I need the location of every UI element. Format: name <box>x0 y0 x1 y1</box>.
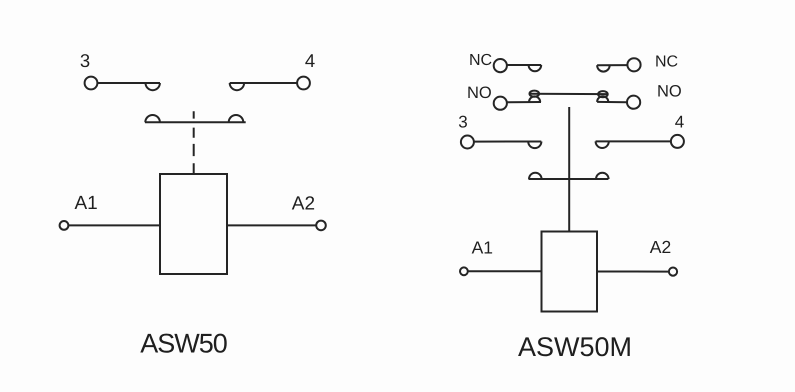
wire NO right <box>597 101 627 103</box>
wire coil to A2 <box>227 224 316 226</box>
NC fixed contact right (semicircle down) <box>597 65 610 71</box>
terminal circle 3 <box>85 77 98 90</box>
NO fixed contact left (semicircle up) <box>529 96 540 102</box>
svg-text:3: 3 <box>458 113 467 132</box>
terminal circle NO right <box>627 96 640 109</box>
svg-text:NC: NC <box>655 53 678 70</box>
svg-text:ASW50M: ASW50M <box>518 332 632 362</box>
svg-text:4: 4 <box>675 113 684 132</box>
wire pole3 (ASW50M) <box>474 141 541 143</box>
wire fixed contact to pole4 <box>230 82 298 84</box>
NO movable bridge wire <box>530 93 608 95</box>
coil K1 (ASW50) <box>160 174 227 274</box>
bridge contact right (semicircle up) <box>229 115 244 122</box>
wire NC left <box>507 64 542 66</box>
wire coil to A2 (ASW50M) <box>597 271 669 273</box>
terminal circle A2 (ASW50M) <box>669 268 677 276</box>
NO bridge contact left (ellipse) <box>530 91 540 97</box>
svg-text:A2: A2 <box>650 237 671 257</box>
wire A1 to coil (ASW50M) <box>468 270 542 272</box>
svg-text:A1: A1 <box>75 193 98 214</box>
terminal circle NC right <box>627 58 640 71</box>
bridge contact left (semicircle up) <box>145 115 160 122</box>
fixed contact pole4 (semicircle down) <box>596 141 609 148</box>
bridge contact left (semicircle up, ASW50M) <box>529 173 542 179</box>
fixed contact pole3 (semicircle down) <box>528 142 541 149</box>
svg-text:ASW50: ASW50 <box>140 329 227 359</box>
movable bridge wire (ASW50M power pole) <box>529 178 609 180</box>
actuator link (vertical wire) <box>568 107 570 232</box>
wire NC right <box>597 64 628 66</box>
svg-text:NC: NC <box>469 52 492 69</box>
actuator dashed link <box>193 111 195 174</box>
svg-text:A2: A2 <box>292 194 315 215</box>
wire pole3 to fixed contact <box>97 82 160 84</box>
terminal circle NC left <box>494 59 507 72</box>
svg-text:A1: A1 <box>472 238 493 258</box>
terminal circle A1 (ASW50M) <box>460 267 468 275</box>
svg-text:NO: NO <box>657 83 682 101</box>
svg-text:NO: NO <box>467 84 492 102</box>
bridge contact right (semicircle up, ASW50M) <box>596 173 609 179</box>
terminal circle A1 <box>60 221 69 230</box>
NO bridge contact right (ellipse) <box>598 91 608 97</box>
terminal circle 4 (ASW50M) <box>671 135 684 148</box>
NO fixed contact right (semicircle up) <box>597 96 608 102</box>
wire A1 to coil <box>68 224 160 226</box>
terminal circle NO left <box>494 97 507 110</box>
NC fixed contact left (semicircle down) <box>529 65 542 71</box>
svg-text:3: 3 <box>80 50 90 71</box>
svg-text:4: 4 <box>305 50 315 71</box>
fixed contact right (semicircle down) <box>230 83 244 90</box>
terminal circle 4 <box>297 77 310 90</box>
fixed contact left (semicircle down) <box>146 83 160 90</box>
terminal circle A2 <box>316 221 326 231</box>
wire pole4 (ASW50M) <box>596 140 671 142</box>
terminal circle 3 (ASW50M) <box>461 136 474 149</box>
wire NO left <box>507 101 541 103</box>
movable bridge wire (ASW50) <box>145 121 246 123</box>
coil K2 (ASW50M) <box>542 232 598 312</box>
